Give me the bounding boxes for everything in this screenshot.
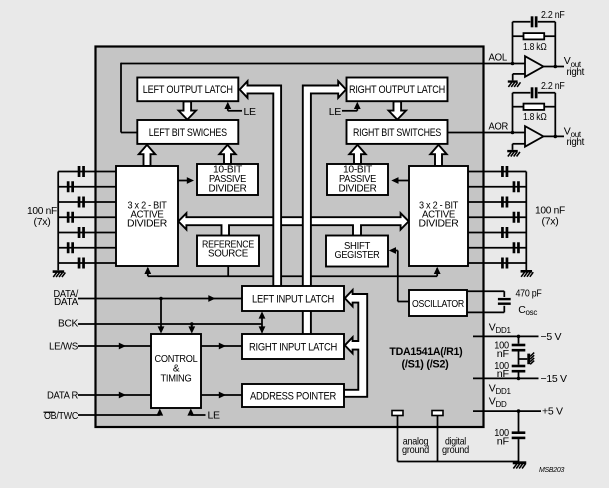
hollow arrow RIGHT OUTPUT LATCH to RIGHT BIT SWITCHES [389,101,406,119]
wire DATA branch to CONTROL&TIMING [160,299,162,331]
capacitor 100nF +5V [512,431,526,434]
wire AOR feedback loop [512,93,514,133]
svg-text:MSB203: MSB203 [539,467,564,474]
ground right capacitor bank [521,270,533,273]
pin digital ground [432,411,443,416]
node AOR junctions [511,131,515,135]
block right 3x2-BIT ACTIVE DIVIDER [409,166,468,266]
hollow arrow left active divider to LEFT BIT SWICHES [139,145,155,166]
svg-text:right: right [567,66,585,78]
block ADDRESS POINTER [242,384,344,407]
left channel bus (LEFT INPUT LATCH to LEFT OUTPUT LATCH hollow arrow) [240,81,281,287]
wire DATA input to LEFT INPUT LATCH [78,298,242,300]
wire DATA R input to CONTROL&TIMING [78,394,151,396]
svg-text:LE: LE [329,106,342,118]
wire CONTROL&TIMING to ADDRESS POINTER [201,394,242,396]
wire LE/WS input to CONTROL&TIMING [78,345,151,347]
capacitor 2.2nF AOL feedback [531,16,534,27]
svg-text:RIGHT INPUT LATCH: RIGHT INPUT LATCH [249,341,337,353]
svg-text:ground: ground [402,444,429,456]
svg-text:SOURCE: SOURCE [208,249,249,260]
wire VDD1 -5V supply [473,335,539,337]
right decoupling capacitor bank (7x 100nF) [468,171,526,173]
block REFERENCE SOURCE [197,236,259,267]
wire AOR op-amp plus input to ground [513,143,526,145]
svg-text:DD1: DD1 [496,387,512,396]
svg-text:nF: nF [497,368,509,380]
LE latch-enable left output latch [227,106,229,111]
wire VDD1 -15V supply [473,377,539,379]
svg-text:LE: LE [244,106,257,118]
wire analog ground pin [397,416,399,462]
wire AOR output [543,135,564,137]
wire reference source to divider bottoms [148,275,437,277]
LE latch-enable right output latch [356,106,358,111]
svg-text:DD1: DD1 [496,326,512,335]
svg-text:(7x): (7x) [34,216,51,228]
wire AOL op-amp plus input to ground [513,73,525,75]
pin analog ground [392,411,403,416]
svg-text:+5 V: +5 V [542,406,563,418]
node AOL junctions [511,62,515,66]
svg-text:−5 V: −5 V [541,331,562,343]
svg-text:OSCILLATOR: OSCILLATOR [412,299,464,310]
resistor 1.8k AOR feedback [524,104,545,110]
svg-text:right: right [567,136,585,148]
hollow arrow left passive divider to LEFT BIT SWICHES [219,145,235,164]
block RIGHT OUTPUT LATCH [347,78,448,102]
svg-text:DD: DD [496,400,507,409]
svg-text:GEGISTER: GEGISTER [335,250,380,261]
wire BCK branch to CONTROL&TIMING [191,324,193,331]
hollow arrow right passive divider to RIGHT BIT SWITCHES [349,145,365,164]
block OSCILLATOR [409,290,467,316]
svg-text:(7x): (7x) [542,215,559,227]
wire OSCILLATOR to SHIFT GEGISTER [398,301,409,303]
ground AOL op-amp [508,80,518,82]
wire OB/TWC input to CONTROL&TIMING [78,414,160,416]
wire supply decoupling chain [518,336,520,343]
wire decoupling midpoint to chassis [519,358,528,360]
svg-text:LEFT OUTPUT LATCH: LEFT OUTPUT LATCH [143,84,233,96]
svg-text:RIGHT BIT SWITCHES: RIGHT BIT SWITCHES [353,127,441,139]
wire CONTROL&TIMING to RIGHT INPUT LATCH [201,345,242,347]
chassis symbol supply midpoint [527,354,530,365]
wire +5V decoupling to ground [518,411,520,431]
block LEFT INPUT LATCH [242,286,344,311]
capacitor 2.2nF AOR feedback [531,87,534,98]
right capacitor bank bus [525,172,527,271]
svg-text:BCK: BCK [58,318,78,330]
block LEFT OUTPUT LATCH [137,78,238,102]
capacitor Cosc 470pF [498,298,511,300]
reference distribution bus (hollow arrows to both active dividers) [178,213,408,236]
LE latch-enable control timing [190,412,192,416]
block RIGHT INPUT LATCH [242,334,344,359]
wire RIGHT BIT SWITCHES to AOR op-amp [448,132,525,134]
svg-text:LE/WS: LE/WS [49,341,78,353]
svg-text:1.8 kΩ: 1.8 kΩ [523,111,547,123]
svg-text:TIMING: TIMING [161,374,192,385]
resistor 1.8k AOL feedback [524,33,545,39]
svg-text:nF: nF [497,435,509,447]
svg-text:ground: ground [442,444,469,456]
block left 3x2-BIT ACTIVE DIVIDER [116,166,178,266]
left capacitor bank bus [57,172,59,271]
wire BCK input [78,323,262,325]
wire AOL feedback loop [512,22,514,64]
hollow arrow LEFT OUTPUT LATCH to LEFT BIT SWICHES [179,101,196,119]
feedback bus ADDRESS POINTER to input latches (hollow arrows) [344,290,367,397]
wire LEFT BIT SWICHES to AOL op-amp (top rail) [121,63,525,65]
ground bottom rail [513,461,527,464]
hollow arrow right active divider to RIGHT BIT SWITCHES [430,145,446,166]
svg-text:LEFT BIT SWICHES: LEFT BIT SWICHES [149,127,227,139]
svg-text:DIVIDER: DIVIDER [127,218,167,229]
wire right active divider to right passive divider [397,180,409,182]
ground left capacitor bank [53,270,65,273]
svg-text:DIVIDER: DIVIDER [209,183,247,194]
svg-text:LE: LE [208,410,221,422]
svg-text:AOR: AOR [489,121,509,133]
left decoupling capacitor bank (7x 100nF) [58,171,116,173]
block LEFT BIT SWICHES [137,120,238,144]
wire VDD +5V supply [473,410,541,412]
svg-text:RIGHT OUTPUT LATCH: RIGHT OUTPUT LATCH [349,84,445,96]
svg-text:2.2 nF: 2.2 nF [541,9,565,21]
capacitor 100nF -5V [512,344,526,347]
svg-text:DIVIDER: DIVIDER [339,183,377,194]
block CONTROL & TIMING [151,334,201,408]
wire left active divider to left passive divider [178,180,188,182]
svg-text:osc: osc [526,308,538,317]
capacitor 100nF -15V [512,365,526,368]
svg-text:(/S1) (/S2): (/S1) (/S2) [402,358,450,370]
svg-text:−15 V: −15 V [541,373,568,385]
svg-text:ADDRESS POINTER: ADDRESS POINTER [250,390,336,402]
right channel bus (RIGHT INPUT LATCH to RIGHT OUTPUT LATCH hollow arrow) [303,81,346,335]
block right 10-BIT PASSIVE DIVIDER [327,164,388,195]
svg-text:DATA R: DATA R [47,390,79,402]
wire OSCILLATOR to Cosc [467,290,504,292]
svg-text:2.2 nF: 2.2 nF [541,80,565,92]
svg-text:DATA: DATA [54,296,78,308]
svg-text:AOL: AOL [489,51,508,63]
svg-text:nF: nF [497,348,509,360]
wire digital ground pin [437,416,439,462]
wire bottom ground rail [398,461,519,463]
wire BCK clock double arrow to input latches [261,314,263,333]
svg-text:1.8 kΩ: 1.8 kΩ [523,41,547,53]
wire AOL output [543,66,564,68]
op-amp AOL output buffer [525,56,543,77]
block RIGHT BIT SWITCHES [347,120,448,144]
ground AOR op-amp [507,150,518,152]
svg-text:DIVIDER: DIVIDER [419,218,459,229]
block SHIFT GEGISTER [326,236,388,267]
op-amp AOR output buffer [525,126,543,147]
IC body TDA1541A outline [96,47,484,428]
svg-text:LEFT INPUT LATCH: LEFT INPUT LATCH [252,293,334,305]
block left 10-BIT PASSIVE DIVIDER [197,164,258,195]
svg-text:470 pF: 470 pF [516,288,542,300]
svg-text:TDA1541A(/R1): TDA1541A(/R1) [389,346,463,358]
